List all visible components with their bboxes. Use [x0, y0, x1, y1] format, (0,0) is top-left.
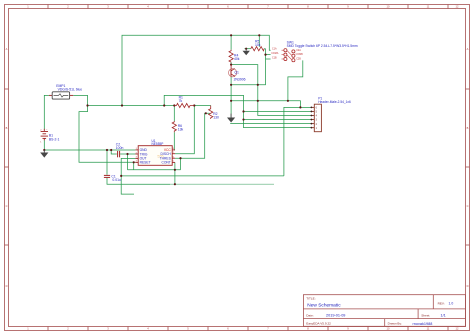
svg-text:DISCH: DISCH [161, 152, 172, 156]
wire R4 riser [230, 35, 232, 64]
motor EMP1 [49, 84, 82, 99]
svg-text:SMD Toggle Switch 6P 2.54-L7.5: SMD Toggle Switch 6P 2.54-L7.5*W3.5*H1.5… [287, 44, 358, 48]
title block [303, 295, 465, 327]
svg-text:130: 130 [213, 116, 219, 120]
svg-text:1: 1 [27, 5, 29, 9]
svg-text:C: C [467, 204, 469, 208]
wire OUT drop [121, 158, 135, 176]
svg-text:12: 12 [456, 327, 459, 331]
header P1 [311, 97, 352, 132]
wire CONT drop [174, 162, 176, 184]
svg-text:7: 7 [267, 5, 269, 9]
svg-text:6: 6 [227, 327, 229, 331]
wire pin3 net [231, 65, 311, 116]
svg-text:Date:: Date: [306, 313, 314, 317]
svg-text:COMA: COMA [271, 52, 279, 55]
wire under chip [128, 162, 181, 170]
resistor R1 [174, 96, 194, 108]
junction dots [43, 34, 301, 185]
capacitor C1 [104, 175, 121, 182]
svg-text:CONT: CONT [161, 161, 170, 165]
svg-text:NE555P: NE555P [152, 142, 164, 146]
wire main rail [88, 105, 211, 107]
resistor R2 [209, 106, 219, 120]
svg-text:3: 3 [107, 327, 109, 331]
svg-text:2N3906: 2N3906 [234, 77, 246, 81]
svg-text:Drawn By:: Drawn By: [388, 322, 402, 326]
svg-text:TITLE:: TITLE: [306, 296, 315, 300]
wire stub hook below C1 junction [121, 176, 134, 194]
svg-text:9: 9 [347, 5, 349, 9]
wire ground net right [231, 60, 303, 107]
wire motor to main rail [73, 95, 87, 105]
svg-text:0.01u: 0.01u [112, 178, 121, 182]
ground near R5 [243, 49, 250, 56]
svg-text:Header-Male-2.54_1x6: Header-Male-2.54_1x6 [318, 100, 351, 104]
svg-text:+: + [46, 129, 48, 131]
svg-text:1: 1 [40, 142, 42, 144]
toggle switch SW1 [271, 41, 358, 62]
transistor Q1 [229, 65, 246, 82]
svg-text:4: 4 [147, 327, 149, 331]
svg-text:D: D [6, 284, 8, 288]
battery B1 [40, 129, 59, 144]
wire header pin1 row and riser [284, 107, 311, 175]
svg-text:8: 8 [307, 5, 309, 9]
svg-text:C2B: C2B [296, 58, 301, 61]
svg-text:BS-2-1: BS-2-1 [49, 138, 60, 142]
svg-text:1/1: 1/1 [441, 314, 446, 318]
resistor R5 [251, 39, 264, 50]
wire battery minus to gnd rail [44, 140, 135, 150]
svg-text:10: 10 [387, 327, 390, 331]
svg-text:VCC: VCC [164, 148, 172, 152]
ground under battery [40, 150, 48, 158]
svg-text:2: 2 [67, 327, 69, 331]
svg-text:New Schematic: New Schematic [307, 303, 341, 309]
svg-text:3: 3 [107, 5, 109, 9]
svg-text:TRIG: TRIG [140, 152, 148, 156]
svg-text:D: D [467, 284, 469, 288]
wire C1 top drop [106, 150, 108, 175]
op-amp timer U1 NE555P [135, 139, 175, 166]
svg-text:rnovak1988: rnovak1988 [413, 322, 433, 326]
capacitor C2 [116, 142, 124, 157]
wire C1 bottom line [107, 178, 170, 184]
svg-text:13k: 13k [178, 127, 184, 131]
svg-text:B: B [6, 126, 8, 130]
svg-text:4: 4 [147, 5, 149, 9]
svg-text:2: 2 [67, 5, 69, 9]
svg-text:EasyEDA V5.9.22: EasyEDA V5.9.22 [306, 322, 331, 326]
svg-text:C1B: C1B [272, 56, 277, 59]
svg-text:COMB: COMB [296, 53, 304, 56]
svg-text:Q1: Q1 [234, 70, 239, 74]
svg-text:11: 11 [427, 5, 430, 9]
svg-text:12: 12 [456, 5, 459, 9]
wire R6 to VCC [173, 106, 176, 150]
svg-text:C1A: C1A [272, 48, 277, 51]
wire Q1 collector to ground [230, 77, 232, 118]
svg-text:9: 9 [347, 327, 349, 331]
svg-text:C2A: C2A [296, 49, 301, 52]
svg-text:RESET: RESET [140, 161, 151, 165]
wire THRES [175, 113, 210, 170]
svg-text:1.0: 1.0 [449, 302, 454, 306]
svg-text:Sheet:: Sheet: [421, 313, 430, 317]
svg-text:100n: 100n [116, 146, 124, 150]
wire jog rail to RESET [79, 106, 135, 163]
wire R5 leads [245, 48, 266, 50]
svg-text:5: 5 [187, 5, 189, 9]
svg-text:A: A [6, 47, 8, 51]
wire switch com net [231, 49, 271, 85]
resistor R6 [172, 121, 183, 132]
wire top rail [122, 35, 271, 105]
wire TRIG drop [127, 154, 129, 170]
wire header pin5 line [230, 123, 311, 125]
wire OUT long line to header pin1 riser [121, 175, 284, 177]
wire C1 bottom line right part [170, 183, 274, 185]
svg-text:2019-01-09: 2019-01-09 [326, 314, 345, 318]
svg-text:1: 1 [27, 327, 29, 331]
wire rail A pins 2 4 6 [164, 95, 311, 127]
svg-text:C: C [6, 204, 8, 208]
svg-text:10: 10 [387, 5, 390, 9]
svg-text:7: 7 [267, 327, 269, 331]
svg-text:A: A [467, 47, 469, 51]
resistor R4 [229, 50, 240, 63]
svg-text:8: 8 [307, 327, 309, 331]
wire DISCH riser [175, 106, 194, 154]
svg-text:7k: 7k [179, 99, 183, 103]
wire C2 trig line [111, 150, 135, 154]
svg-text:REV:: REV: [438, 302, 445, 306]
svg-text:11: 11 [427, 327, 430, 331]
svg-text:B: B [467, 126, 469, 130]
svg-text:6: 6 [227, 5, 229, 9]
svg-text:10k: 10k [255, 43, 261, 47]
ground under Q1 [227, 114, 235, 123]
svg-text:VDG/S-51L blue: VDG/S-51L blue [58, 87, 83, 91]
wire battery plus to motor [44, 95, 49, 129]
svg-text:5: 5 [187, 327, 189, 331]
svg-text:40k: 40k [234, 57, 240, 61]
